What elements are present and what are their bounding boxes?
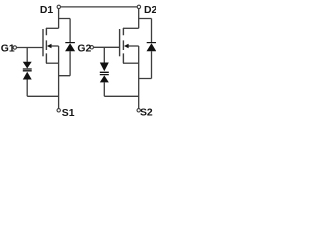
svg-text:G2: G2 [77,44,91,55]
svg-text:D1: D1 [40,5,54,16]
svg-text:S2: S2 [140,108,153,117]
svg-text:D2: D2 [144,5,156,16]
svg-text:S1: S1 [62,108,75,117]
svg-text:G1: G1 [1,44,15,55]
